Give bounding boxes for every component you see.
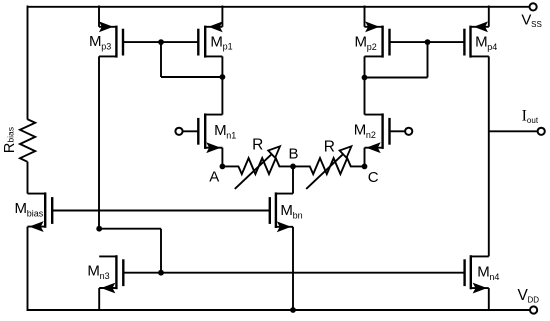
terminal Mn1 gate input <box>175 128 198 135</box>
transistor Mn2 <box>354 113 390 152</box>
wire node B down to Mbn drain <box>292 166 294 193</box>
resistor Rbias <box>2 119 35 162</box>
transistor Mp2 <box>355 23 390 58</box>
node dot pmos left gate junction <box>158 39 164 45</box>
transistor Mbn <box>270 192 303 231</box>
wire Mp2 Mp4 gate wire <box>390 41 465 43</box>
svg-text:R: R <box>252 136 263 153</box>
wire Mn3 Mn4 gate wire <box>123 272 464 274</box>
wire node C up to Mn2 source <box>364 148 366 167</box>
transistor Mp1 <box>198 23 232 58</box>
wire Iout <box>489 130 538 132</box>
svg-text:A: A <box>209 169 219 186</box>
wire right diode loop <box>365 42 428 77</box>
transistor Mp3 <box>89 23 123 58</box>
wire Mn4 source to VDD rail <box>488 288 490 311</box>
wire junction to Mn3 gate loop <box>99 229 161 273</box>
transistor Mn1 <box>198 113 236 152</box>
wire Mp1 drain to Mn1 drain <box>221 56 223 114</box>
wire left diode loop <box>161 42 222 77</box>
wire Mp3 source to VSS <box>98 6 100 27</box>
wire VSS top rail <box>28 6 530 8</box>
wire left rail upper <box>27 6 29 120</box>
node B <box>288 146 298 170</box>
wire Mp3 drain down <box>98 56 100 228</box>
wire Mbn source to VDD rail <box>292 227 294 310</box>
svg-text:R: R <box>324 139 335 156</box>
wire Mp4 source to VSS <box>488 6 490 27</box>
wire Mbias Mbn gate wire <box>52 210 270 212</box>
node dot Mn3 drain junction <box>96 226 102 232</box>
svg-text:C: C <box>368 169 379 186</box>
wire Mp2 source to VSS <box>364 6 366 27</box>
wire Mp3 Mp1 gate wire <box>123 41 198 43</box>
transistor Mn3 <box>87 255 123 292</box>
node dot Mbn source on rail <box>290 307 296 313</box>
wire VDD bottom rail <box>27 309 531 311</box>
wire left rail mid <box>27 162 29 194</box>
resistor R1 <box>222 136 293 189</box>
node dot Mp1 drain <box>220 74 226 80</box>
node dot Mn3 gate junction <box>158 270 164 276</box>
terminal Mn2 gate input <box>390 128 413 135</box>
node A <box>209 164 225 186</box>
wire Mn1 source to node A <box>221 148 223 167</box>
terminal Iout <box>522 108 545 135</box>
transistor Mp4 <box>464 23 497 58</box>
svg-text:B: B <box>288 146 298 163</box>
wire Mbias source to VDD rail <box>27 227 29 311</box>
wire Mp1 source to VSS <box>221 6 223 27</box>
node dot Mp2 drain <box>362 75 368 81</box>
transistor Mn4 <box>465 255 500 292</box>
wire Mn2 drain to Mp2 drain <box>364 56 366 114</box>
terminal VSS <box>521 3 541 29</box>
resistor R2 <box>293 139 365 189</box>
terminal VDD <box>518 287 540 314</box>
node dot pmos right gate junction <box>425 39 431 45</box>
transistor Mbias <box>15 192 53 231</box>
wire Mp4 drain down to Mn4 drain <box>488 56 490 256</box>
wire Mn3 source to VDD rail <box>98 288 100 311</box>
node C <box>362 164 379 187</box>
